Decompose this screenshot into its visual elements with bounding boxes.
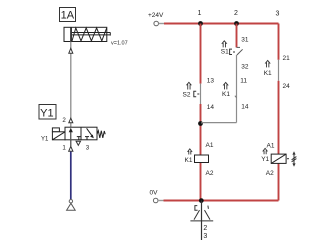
svg-text:K1: K1 [185,157,193,164]
svg-text:2: 2 [62,117,66,124]
svg-text:32: 32 [241,63,249,70]
svg-text:S2: S2 [183,92,191,99]
svg-text:14: 14 [207,104,215,111]
svg-text:S1: S1 [221,49,229,56]
svg-text:K1: K1 [264,70,272,77]
svg-text:24: 24 [283,83,291,90]
svg-text:13: 13 [207,77,215,84]
svg-text:3: 3 [86,145,90,152]
svg-text:Y1: Y1 [261,156,269,163]
svg-text:+24V: +24V [148,12,164,19]
svg-text:Y1: Y1 [40,107,53,119]
svg-text:A1: A1 [267,143,275,150]
svg-text:A1: A1 [206,142,214,149]
svg-text:Y1: Y1 [41,137,49,143]
svg-text:1: 1 [62,145,66,152]
svg-text:1A: 1A [61,10,75,22]
svg-text:K1: K1 [222,91,230,98]
svg-text:0V: 0V [150,189,159,196]
svg-text:2: 2 [234,10,238,17]
svg-text:2: 2 [203,225,207,232]
svg-text:11: 11 [240,78,247,85]
svg-text:31: 31 [241,36,249,43]
svg-text:1: 1 [198,10,202,17]
svg-text:A2: A2 [266,170,274,177]
svg-text:v=1.07: v=1.07 [111,40,128,46]
svg-text:A2: A2 [206,170,214,177]
svg-text:3: 3 [203,233,207,240]
svg-text:21: 21 [283,55,291,62]
svg-text:14: 14 [241,104,249,111]
svg-text:3: 3 [276,11,280,18]
